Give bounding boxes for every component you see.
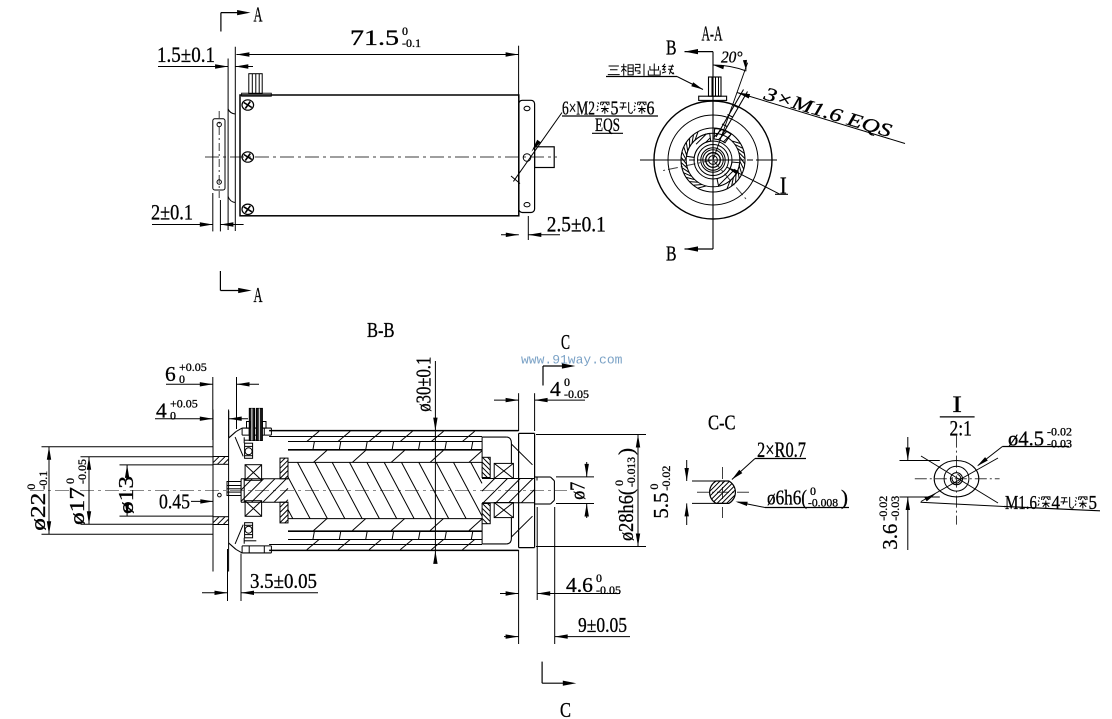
shaft section C-C xyxy=(710,481,736,503)
svg-text:-0.05: -0.05 xyxy=(596,583,621,597)
section arrow C bottom xyxy=(541,662,543,684)
stator shell top xyxy=(269,430,518,432)
dimension 4.6 xyxy=(566,571,621,597)
svg-text:ø28h6(: ø28h6( xyxy=(614,489,638,541)
section arrow C top xyxy=(542,366,544,386)
shaft flat circle xyxy=(709,156,718,165)
svg-text:-0.02: -0.02 xyxy=(659,466,673,491)
bore lines dia13 xyxy=(120,464,214,466)
screw middle xyxy=(242,152,254,162)
winding sector top xyxy=(714,129,731,143)
section arrow B top xyxy=(685,51,714,53)
centerlines C-C xyxy=(697,491,749,493)
20 degree line xyxy=(713,63,748,160)
leader 6xM2 xyxy=(513,113,562,182)
svg-text:-0.05: -0.05 xyxy=(564,387,589,401)
magnet segment bottom-right xyxy=(717,162,740,186)
svg-text:5.5: 5.5 xyxy=(649,493,673,519)
dimension 4 right xyxy=(550,375,589,401)
dimension dia17 xyxy=(63,459,89,525)
stator slot circle xyxy=(686,133,740,187)
dimension dia30 xyxy=(412,357,436,412)
shaft end inner circle xyxy=(944,466,969,491)
dimension dia28h6 xyxy=(612,448,638,541)
svg-text:A: A xyxy=(254,283,263,307)
svg-text:ø22: ø22 xyxy=(26,493,50,531)
magnet block left top xyxy=(280,458,288,479)
dimension 4 left xyxy=(156,397,198,423)
terminal block A-A xyxy=(709,77,722,96)
section arrow A top xyxy=(220,13,222,32)
svg-text:2±0.1: 2±0.1 xyxy=(151,199,193,224)
svg-text:2.5±0.1: 2.5±0.1 xyxy=(547,212,606,237)
label 3xM1.6 text xyxy=(760,83,894,142)
right end cap xyxy=(482,436,506,438)
centerline diagonal lower-left xyxy=(662,160,714,171)
svg-text:-0.1: -0.1 xyxy=(402,36,421,50)
ball bearing bottom xyxy=(245,523,253,538)
svg-text:B: B xyxy=(666,242,677,266)
lead wire pin xyxy=(716,90,744,138)
output shaft side view xyxy=(535,147,555,168)
bearing outer circle xyxy=(701,148,725,172)
centerline diagonal lower-right xyxy=(713,160,748,201)
magnet segment top-left xyxy=(687,133,711,157)
20 degree arc xyxy=(713,65,746,71)
shaft circle xyxy=(706,153,721,168)
shaft spline left end xyxy=(227,482,241,496)
dimension 5.5 xyxy=(647,466,673,519)
svg-text:20°: 20° xyxy=(721,48,743,67)
svg-text:I: I xyxy=(952,392,962,417)
svg-text:3.6: 3.6 xyxy=(878,524,902,550)
label 3xM1.6 leader xyxy=(737,93,905,144)
centerlines detail I xyxy=(915,478,1000,480)
motor body outline xyxy=(240,95,519,216)
dimension 6 xyxy=(165,360,207,386)
stator lamination ticks bottom xyxy=(313,531,473,539)
shaft left mid xyxy=(241,478,288,480)
label three-phase leads xyxy=(608,66,620,75)
winding hatch bottom xyxy=(314,519,483,531)
winding hatch top xyxy=(314,450,483,462)
stator lamination ticks top xyxy=(313,442,473,450)
shaft right hatch xyxy=(482,478,535,480)
bearing crossbox left top xyxy=(245,465,262,481)
stator slot ticks upper right xyxy=(727,141,745,189)
rotor herringbone xyxy=(288,462,482,518)
bearing crossbox right top xyxy=(494,463,513,478)
label dia4.5 xyxy=(1008,424,1072,450)
rear flange plate B-B xyxy=(518,433,520,547)
svg-text:M1.6: M1.6 xyxy=(1005,493,1037,514)
svg-text:A-A: A-A xyxy=(702,21,723,45)
svg-text:9±0.05: 9±0.05 xyxy=(578,613,627,637)
svg-text:-0.05: -0.05 xyxy=(75,459,89,484)
svg-text:C-C: C-C xyxy=(708,410,736,434)
bearing crossbox left bottom xyxy=(245,501,262,517)
svg-text:C: C xyxy=(561,330,570,354)
screw bottom xyxy=(242,204,254,214)
svg-text:www.91way.com: www.91way.com xyxy=(521,353,623,368)
detail I leader xyxy=(727,167,780,194)
shaft end outer xyxy=(934,461,979,497)
svg-text:ø17: ø17 xyxy=(65,487,89,525)
svg-text:B: B xyxy=(666,35,677,59)
svg-text:2:1: 2:1 xyxy=(950,416,972,441)
bearing crossbox right bottom xyxy=(494,503,513,518)
svg-text:ø6h6(: ø6h6( xyxy=(767,486,807,510)
diagonal cross lines xyxy=(921,458,998,502)
magnet hatch top band xyxy=(307,431,475,441)
svg-text:71.5: 71.5 xyxy=(350,25,399,50)
centerline side view xyxy=(205,156,557,158)
stator shell bottom xyxy=(269,549,518,551)
magnet block right bottom xyxy=(482,504,490,524)
svg-text:ø7: ø7 xyxy=(566,482,590,500)
terminal pins B-B xyxy=(249,408,254,440)
centerline B-B xyxy=(30,490,567,492)
svg-text:1.5±0.1: 1.5±0.1 xyxy=(157,42,215,67)
svg-text:0.45: 0.45 xyxy=(159,490,190,514)
mounting plate section xyxy=(212,410,214,572)
housing inner circle xyxy=(668,115,758,205)
svg-text:C: C xyxy=(560,698,571,719)
connector body xyxy=(247,422,251,429)
svg-text:-0.013: -0.013 xyxy=(624,457,638,487)
svg-text:-0.1: -0.1 xyxy=(36,471,50,490)
svg-text:): ) xyxy=(841,486,848,510)
section line B-B vertical xyxy=(712,52,714,249)
svg-text:4: 4 xyxy=(1052,493,1061,514)
left end bell xyxy=(229,432,236,439)
svg-text:-0.03: -0.03 xyxy=(1047,436,1072,450)
front boss bracket xyxy=(213,119,225,190)
housing outer circle xyxy=(654,101,772,219)
svg-text:I: I xyxy=(780,173,787,199)
dimension 3.6 xyxy=(876,496,902,550)
screw top xyxy=(242,100,254,110)
stator slot ticks lower left xyxy=(681,132,706,188)
dimension dia7 xyxy=(566,482,590,500)
magnet inner circle xyxy=(698,145,729,176)
dimension dia13 xyxy=(114,476,138,514)
svg-text:-0.03: -0.03 xyxy=(888,496,902,521)
thread hole M1.6 xyxy=(951,473,963,485)
magnet block right top xyxy=(482,457,490,477)
svg-text:0: 0 xyxy=(170,409,176,423)
bore lines dia17 xyxy=(81,456,214,458)
ball bearing top xyxy=(245,443,253,458)
centerline horizontal A-A xyxy=(640,159,777,161)
magnet block left bottom xyxy=(280,502,288,523)
bearing inner circle xyxy=(703,150,723,170)
svg-text:): ) xyxy=(614,448,638,455)
dimension dia22 xyxy=(24,471,50,531)
output shaft B-B xyxy=(535,476,551,478)
front mounting plate xyxy=(227,59,229,231)
svg-text:ø30±0.1: ø30±0.1 xyxy=(412,357,436,412)
stator outer circle xyxy=(681,128,745,192)
svg-text:6: 6 xyxy=(165,362,176,386)
bore lines dia22 xyxy=(42,446,214,448)
rotor circle xyxy=(694,141,732,179)
dimension 71.5 xyxy=(350,24,421,50)
svg-text:A: A xyxy=(254,3,263,27)
section arrow A bottom xyxy=(219,271,221,291)
magnet hatch bottom band xyxy=(307,540,475,550)
svg-text:B-B: B-B xyxy=(367,318,395,342)
svg-text:4: 4 xyxy=(550,377,561,401)
rear flange xyxy=(519,100,535,212)
section arrow B bottom xyxy=(685,248,714,250)
svg-text:3.5±0.05: 3.5±0.05 xyxy=(250,569,317,593)
terminal pins side view xyxy=(249,74,262,94)
